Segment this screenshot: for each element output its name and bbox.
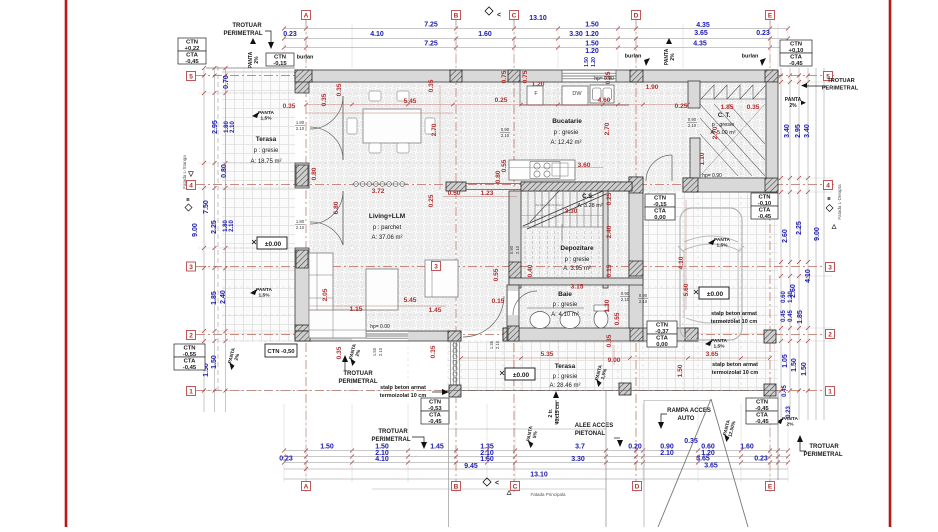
svg-text:3: 3: [434, 264, 438, 271]
svg-text:CTA: CTA: [654, 209, 666, 215]
svg-text:2.60: 2.60: [782, 229, 789, 243]
svg-text:2.10: 2.10: [621, 297, 630, 302]
living bottom exterior wall: [295, 331, 461, 341]
svg-text:2.10: 2.10: [660, 450, 674, 457]
CT room south wall: [683, 178, 778, 192]
sofa vertical section: [309, 253, 333, 321]
level marker living: [257, 237, 287, 249]
svg-text:2.05: 2.05: [322, 288, 329, 301]
grid axis D: [635, 20, 637, 492]
bathroom sink 2: [560, 312, 580, 329]
left dimension lines: [203, 68, 205, 412]
right exterior wall: [766, 82, 778, 178]
svg-text:1,5%: 1,5%: [259, 293, 271, 299]
svg-text:1.50: 1.50: [677, 364, 684, 377]
svg-text:1.50: 1.50: [585, 41, 599, 48]
svg-text:0.35: 0.35: [283, 103, 296, 110]
svg-text:hp= 0.90: hp= 0.90: [594, 76, 614, 82]
svg-text:1.50: 1.50: [211, 355, 218, 369]
svg-text:CTA: CTA: [756, 413, 768, 419]
svg-text:CTA: CTA: [184, 359, 196, 365]
svg-text:4: 4: [826, 183, 830, 190]
storage south wall: [509, 278, 643, 285]
CTN boxes left bottom: [174, 344, 205, 371]
svg-text:AUTO: AUTO: [678, 416, 695, 422]
svg-text:3.30: 3.30: [569, 31, 583, 38]
svg-text:9.45: 9.45: [464, 463, 478, 470]
svg-text:CTN: CTN: [656, 323, 668, 329]
grid axis E: [769, 20, 771, 492]
floor herringbone interior: [309, 82, 766, 331]
svg-text:2.10: 2.10: [501, 133, 510, 138]
svg-text:7.25: 7.25: [424, 22, 438, 29]
svg-text:1.50: 1.50: [584, 57, 590, 67]
svg-text:TROTUAR: TROTUAR: [343, 371, 373, 377]
svg-text:Fatada L-Stanga: Fatada L-Stanga: [182, 155, 187, 189]
bathroom door arc: [513, 291, 537, 315]
svg-text:1.60: 1.60: [478, 31, 492, 38]
svg-text:TROTUAR: TROTUAR: [378, 429, 408, 435]
svg-text:2.10: 2.10: [378, 347, 383, 356]
svg-text:-0,45: -0,45: [428, 419, 442, 425]
top grid markers: [302, 11, 311, 20]
south wall of bathroom strip: [503, 328, 698, 341]
carport tiled floor: [643, 192, 778, 341]
svg-text:2.10: 2.10: [296, 126, 305, 131]
svg-text:0.80: 0.80: [495, 170, 502, 183]
svg-text:13.10: 13.10: [530, 472, 548, 479]
grid axis 4: [196, 184, 836, 186]
svg-text:2%: 2%: [787, 422, 795, 428]
grid axis C: [513, 20, 515, 492]
svg-text:3.15: 3.15: [571, 284, 584, 291]
svg-text:termoizolat 10 cm: termoizolat 10 cm: [711, 319, 758, 325]
svg-text:0.35: 0.35: [336, 346, 343, 359]
bathroom west door gap: [508, 291, 518, 315]
grid axis 2: [196, 334, 836, 336]
svg-text:hp= 0.00: hp= 0.00: [370, 324, 390, 330]
svg-text:0.80: 0.80: [311, 167, 318, 180]
svg-text:0.23: 0.23: [283, 31, 297, 38]
svg-text:2.70: 2.70: [431, 123, 438, 136]
svg-text:0.75: 0.75: [522, 70, 529, 83]
svg-text:0.45: 0.45: [788, 310, 794, 322]
top exterior wall: [295, 70, 778, 82]
stair east wall: [603, 191, 608, 288]
svg-text:1.20: 1.20: [788, 291, 794, 303]
svg-text:A: 4.10 m²: A: 4.10 m²: [551, 312, 579, 318]
svg-text:0.50: 0.50: [448, 190, 461, 197]
svg-text:0.45: 0.45: [782, 385, 788, 397]
svg-text:1.85: 1.85: [797, 310, 804, 324]
svg-text:PERIMETRAL: PERIMETRAL: [372, 437, 411, 443]
red left border rule: [65, 0, 68, 527]
svg-text:0.25: 0.25: [495, 97, 508, 104]
svg-text:1.50: 1.50: [320, 444, 334, 451]
svg-text:0.70: 0.70: [223, 75, 230, 89]
svg-text:1: 1: [189, 389, 193, 396]
svg-text:D: D: [634, 13, 639, 20]
svg-text:-0,45: -0,45: [185, 59, 199, 65]
svg-text:C. T.: C. T.: [718, 113, 731, 119]
svg-text:9.00: 9.00: [608, 357, 621, 364]
column C5: [508, 70, 520, 82]
svg-text:Fatada L-Dreapta: Fatada L-Dreapta: [837, 184, 842, 220]
window in living bottom wall: [352, 332, 408, 340]
svg-text:5.60: 5.60: [683, 283, 690, 296]
CTN box bottom right: [746, 398, 778, 425]
svg-text:0.90: 0.90: [501, 127, 510, 132]
svg-text:stalp beton armat: stalp beton armat: [380, 385, 426, 391]
svg-text:2.10: 2.10: [296, 225, 305, 230]
svg-text:3.65: 3.65: [694, 30, 708, 37]
svg-text:3: 3: [828, 265, 832, 272]
svg-text:DW: DW: [572, 91, 582, 97]
svg-text:1.80: 1.80: [296, 219, 305, 224]
svg-text:A: A: [304, 484, 309, 491]
svg-text:5.35: 5.35: [541, 351, 554, 358]
column mid terrace 1: [619, 383, 631, 395]
fridge F: [527, 86, 543, 105]
ramp V right leg: [711, 399, 748, 527]
svg-text:0.55: 0.55: [501, 159, 508, 172]
svg-text:2 tr.: 2 tr.: [548, 408, 554, 418]
CTN CTA box right mid: [751, 193, 778, 220]
svg-text:Terasa: Terasa: [555, 363, 576, 370]
cooktop: [530, 162, 560, 179]
svg-text:CTN: CTN: [790, 42, 802, 48]
column D2: [630, 328, 643, 341]
svg-text:CTA: CTA: [656, 336, 668, 342]
svg-text:2.40: 2.40: [606, 225, 613, 238]
svg-text:E: E: [768, 13, 773, 20]
svg-text:A: 37.06 m²: A: 37.06 m²: [371, 235, 402, 241]
dining table: [363, 109, 421, 143]
CTN box bottom mid: [421, 398, 449, 425]
svg-text:CTN: CTN: [429, 400, 441, 406]
svg-text:5.45: 5.45: [404, 297, 417, 304]
svg-text:1.23: 1.23: [481, 190, 494, 197]
column C2 area: [503, 328, 517, 341]
bottom extension lines: [283, 404, 285, 482]
column E1: [764, 384, 776, 396]
grid axis 5: [196, 75, 836, 77]
svg-text:<: <: [495, 480, 499, 487]
svg-text:C: C: [513, 484, 518, 491]
section line at axis B down: [448, 397, 450, 527]
svg-text:2.10: 2.10: [230, 121, 236, 133]
interior dimension leader lines: [306, 104, 688, 106]
svg-text:13.10: 13.10: [529, 15, 547, 22]
svg-text:1.60: 1.60: [480, 456, 494, 463]
dishwasher DW: [562, 86, 588, 105]
grid axis A: [305, 20, 307, 492]
svg-text:0.15: 0.15: [492, 298, 505, 305]
svg-text:0.25: 0.25: [606, 192, 613, 205]
svg-text:1.20: 1.20: [532, 81, 545, 88]
svg-text:A: 18.75 m²: A: 18.75 m²: [250, 159, 281, 165]
svg-text:0.80: 0.80: [221, 164, 228, 178]
svg-text:1.50: 1.50: [801, 362, 808, 376]
svg-text:CTA: CTA: [429, 413, 441, 419]
svg-text:CTA: CTA: [759, 208, 771, 214]
svg-text:0.20: 0.20: [628, 444, 642, 451]
guide lines horizontal: [222, 92, 778, 94]
svg-text:burlan: burlan: [297, 55, 314, 61]
level marker terrace: [505, 368, 535, 380]
svg-text:TROTUAR: TROTUAR: [232, 23, 262, 29]
CT room west wall upper: [688, 81, 700, 108]
svg-text:p : gresie: p : gresie: [712, 122, 735, 128]
svg-text:0.75: 0.75: [501, 70, 508, 83]
svg-text:2.25: 2.25: [796, 221, 803, 235]
marker leader line bottom: [372, 488, 606, 490]
svg-text:2: 2: [189, 333, 193, 340]
svg-text:2%: 2%: [254, 56, 260, 64]
svg-text:9.00: 9.00: [192, 223, 199, 237]
svg-text:termoizolat 10 cm: termoizolat 10 cm: [712, 370, 759, 376]
svg-text:E: E: [768, 484, 773, 491]
svg-text:PANTA: PANTA: [782, 416, 798, 422]
svg-text:SCARA PANTA BALC: SCARA PANTA BALC: [535, 203, 562, 207]
svg-text:p : gresie: p : gresie: [565, 257, 590, 263]
svg-text:1.20: 1.20: [591, 57, 597, 67]
top dimension extension lines: [283, 24, 285, 68]
glazed wall on axis B to terrace: [450, 341, 452, 385]
svg-text:A: 3.28 m²: A: 3.28 m²: [577, 203, 603, 209]
svg-text:±0.00: ±0.00: [265, 241, 282, 248]
svg-text:1.15: 1.15: [350, 306, 363, 313]
svg-text:CTN: CTN: [654, 196, 666, 202]
svg-text:PERIMETRAL: PERIMETRAL: [822, 86, 859, 92]
svg-text:3.30: 3.30: [571, 456, 585, 463]
svg-text:0.35: 0.35: [428, 79, 435, 92]
svg-text:1.80: 1.80: [296, 120, 305, 125]
left wall corner column bottom: [295, 325, 311, 341]
svg-text:1,5%: 1,5%: [717, 243, 729, 249]
svg-text:CTA: CTA: [790, 55, 802, 61]
svg-text:1.85: 1.85: [211, 291, 218, 305]
svg-text:termoizolat 10 cm: termoizolat 10 cm: [380, 393, 427, 399]
car outline: [680, 208, 742, 340]
svg-text:3.60: 3.60: [578, 162, 591, 169]
svg-text:A: 28.46 m²: A: 28.46 m²: [549, 383, 580, 389]
svg-text:PANTA: PANTA: [256, 287, 272, 293]
grid axis 1: [196, 390, 836, 392]
svg-text:0.35: 0.35: [606, 334, 613, 347]
PANTA labels with arrows: [252, 110, 274, 122]
svg-text:PERIMETRAL: PERIMETRAL: [804, 452, 843, 458]
left grid markers: [187, 72, 196, 81]
bottom outside vertical at rampa east: [777, 390, 779, 480]
svg-text:4.10: 4.10: [805, 269, 812, 283]
svg-text:-0,15: -0,15: [273, 61, 287, 67]
svg-text:3.65: 3.65: [696, 456, 710, 463]
double door arcs left wall lower: [310, 191, 343, 224]
stair west wall: [509, 191, 521, 288]
svg-text:1.45: 1.45: [429, 307, 442, 314]
svg-text:-0,45: -0,45: [758, 214, 772, 220]
svg-text:3: 3: [189, 264, 193, 271]
svg-text:0.60: 0.60: [781, 291, 787, 303]
radiator symbols on glazed wall: [453, 343, 457, 347]
svg-text:p : parchet: p : parchet: [373, 225, 402, 231]
svg-text:CTN: CTN: [183, 346, 195, 352]
CT room west wall lower: [690, 138, 700, 181]
svg-text:3.40: 3.40: [784, 124, 791, 138]
wall between living and stair: [446, 182, 466, 191]
left wall lower segment: [295, 248, 309, 331]
svg-text:1.35: 1.35: [489, 340, 494, 349]
svg-text:A: 5.00 m²: A: 5.00 m²: [710, 130, 736, 136]
svg-text:2.95: 2.95: [795, 124, 802, 138]
svg-text:3.72: 3.72: [372, 188, 385, 195]
column D5: [630, 70, 643, 82]
svg-text:2.70: 2.70: [604, 122, 611, 135]
red right border rule: [889, 0, 892, 527]
svg-text:1.05: 1.05: [782, 354, 789, 368]
svg-text:1.50: 1.50: [791, 358, 798, 372]
level marker carport: [699, 287, 729, 299]
column B5: [450, 70, 462, 82]
column B2: [448, 331, 461, 341]
svg-text:0.23: 0.23: [279, 456, 293, 463]
svg-text:PANTA: PANTA: [258, 110, 274, 116]
svg-text:Terasa: Terasa: [256, 136, 277, 143]
column E5 corner: [765, 70, 778, 82]
CTN CTA box top-left: [178, 38, 206, 65]
left wall column block mid: [295, 163, 309, 188]
right extension lines: [778, 81, 832, 83]
column E2: [764, 330, 776, 343]
svg-text:2.40: 2.40: [220, 290, 227, 304]
svg-text:-0,45: -0,45: [789, 61, 803, 67]
svg-text:Bucatarie: Bucatarie: [552, 118, 582, 125]
left extension lines: [198, 92, 295, 94]
svg-text:CTA: CTA: [186, 53, 198, 59]
kitchen window in top wall: [562, 71, 616, 82]
svg-text:1.45: 1.45: [430, 444, 444, 451]
svg-text:2%: 2%: [789, 103, 797, 109]
svg-text:0.35: 0.35: [747, 104, 760, 111]
svg-text:1.90: 1.90: [646, 84, 659, 91]
svg-text:TROTUAR: TROTUAR: [827, 78, 854, 84]
svg-text:CTN: CTN: [758, 195, 770, 201]
guide lines vertical: [351, 82, 353, 390]
svg-text:1: 1: [828, 389, 832, 396]
svg-text:Living+LLM: Living+LLM: [369, 213, 405, 220]
svg-text:9.00: 9.00: [814, 227, 821, 241]
svg-text:1.20: 1.20: [585, 31, 599, 38]
svg-text:1.50: 1.50: [372, 347, 377, 356]
bathroom sink 1: [530, 312, 550, 329]
svg-text:2.10: 2.10: [688, 123, 697, 128]
svg-text:5.45: 5.45: [404, 98, 417, 105]
svg-text:C: C: [512, 13, 517, 20]
svg-text:hp= 0.90: hp= 0.90: [702, 173, 722, 179]
svg-text:▽: ▽: [187, 171, 194, 178]
svg-text:burlan: burlan: [625, 54, 642, 60]
svg-text:0.40: 0.40: [527, 264, 534, 277]
svg-text:1.50: 1.50: [585, 22, 599, 29]
svg-text:0.90: 0.90: [621, 291, 630, 296]
svg-text:0.35: 0.35: [336, 83, 343, 96]
CT room stair triangles top: [701, 85, 714, 99]
svg-text:2.10: 2.10: [639, 299, 648, 304]
svg-text:Fatada Principala: Fatada Principala: [530, 492, 566, 497]
svg-text:0.90: 0.90: [509, 245, 514, 254]
left terrace tiled floor: [222, 70, 295, 341]
kitchen lower counter: [509, 160, 575, 180]
svg-text:±0.00: ±0.00: [707, 291, 724, 298]
svg-text:A: A: [304, 13, 309, 20]
svg-text:Baie: Baie: [558, 291, 572, 298]
svg-text:3.40: 3.40: [804, 124, 811, 138]
svg-text:0.55: 0.55: [493, 268, 500, 281]
svg-text:2.10: 2.10: [229, 220, 235, 232]
CTN box carport top: [645, 194, 675, 221]
right grid markers: [824, 72, 833, 81]
svg-text:CTN: CTN: [274, 55, 286, 61]
svg-text:PANTA: PANTA: [714, 237, 730, 243]
svg-text:0.55: 0.55: [614, 312, 621, 325]
svg-text:0.23: 0.23: [756, 30, 770, 37]
svg-text:stalp beton armat: stalp beton armat: [711, 311, 757, 317]
svg-text:4.60: 4.60: [598, 97, 611, 104]
double door arcs left wall upper: [310, 96, 343, 129]
svg-text:p : gresie: p : gresie: [554, 130, 579, 136]
svg-text:A: 3.95 m²: A: 3.95 m²: [563, 266, 591, 272]
svg-text:0,00: 0,00: [656, 342, 668, 348]
svg-text:PERIMETRAL: PERIMETRAL: [339, 379, 378, 385]
top dimension lines: [284, 28, 788, 30]
kitchen counter top: [520, 104, 629, 106]
ramp V left leg: [658, 399, 711, 527]
svg-text:7.25: 7.25: [424, 41, 438, 48]
kitchen sink: [590, 85, 614, 103]
bottom grid markers: [302, 482, 311, 491]
svg-text:±0.00: ±0.00: [513, 372, 530, 379]
svg-text:p : gresie: p : gresie: [254, 148, 279, 154]
north symbol top: [485, 7, 501, 19]
svg-text:3.7: 3.7: [575, 444, 585, 451]
svg-text:PERIMETRAL: PERIMETRAL: [224, 31, 263, 37]
svg-text:0.35: 0.35: [430, 345, 437, 358]
svg-text:0.90: 0.90: [688, 117, 697, 122]
svg-text:1.60: 1.60: [740, 444, 754, 451]
radiator under stair wall: [354, 182, 359, 187]
ramp west edge: [643, 400, 645, 527]
svg-text:0.25: 0.25: [428, 194, 435, 207]
bathroom west wall: [507, 285, 519, 341]
svg-text:0,00: 0,00: [654, 215, 666, 221]
svg-text:0.23: 0.23: [786, 406, 792, 418]
svg-text:RAMPA ACCES: RAMPA ACCES: [667, 408, 711, 414]
bottom dimension lines: [284, 450, 788, 452]
CT room diagonal flight lines: [700, 104, 765, 176]
svg-text:6.80: 6.80: [333, 201, 340, 214]
bottom terrace tiled floor: [448, 341, 778, 390]
svg-text:0.45: 0.45: [781, 310, 787, 322]
svg-text:4.10: 4.10: [678, 256, 685, 269]
svg-text:CTN -0,50: CTN -0,50: [267, 349, 295, 355]
svg-text:<: <: [497, 12, 501, 19]
svg-text:B: B: [454, 484, 459, 491]
svg-text:PIETONAL: PIETONAL: [575, 431, 606, 437]
svg-text:7.50: 7.50: [203, 200, 210, 214]
column A5 corner: [295, 70, 312, 82]
svg-text:-0,45: -0,45: [755, 419, 769, 425]
